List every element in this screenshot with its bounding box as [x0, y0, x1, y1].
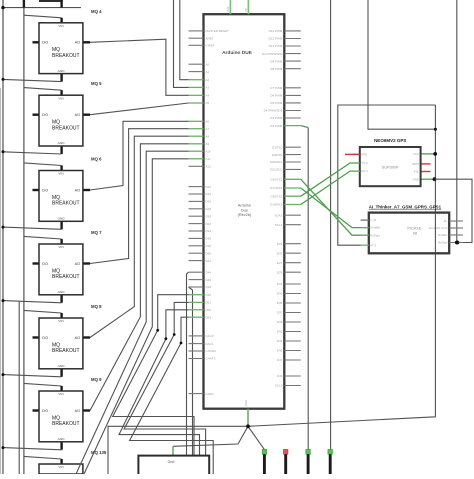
svg-text:D35: D35	[277, 301, 283, 305]
svg-text:BREAKOUT: BREAKOUT	[52, 421, 80, 427]
svg-text:BREAKOUT: BREAKOUT	[52, 125, 80, 131]
svg-text:D51: D51	[206, 301, 212, 305]
svg-text:A8: A8	[206, 134, 210, 138]
svg-text:D10 PWM/SD0: D10 PWM/SD0	[262, 52, 283, 56]
svg-text:D1/TX0: D1/TX0	[272, 145, 283, 149]
svg-text:A11: A11	[206, 157, 211, 161]
svg-text:D33: D33	[277, 292, 283, 296]
svg-text:RxDat2: RxDat2	[438, 241, 448, 245]
svg-text:SDA1: SDA1	[274, 213, 282, 217]
svg-text:Sens 0/2 (TxrI): Sens 0/2 (TxrI)	[429, 226, 448, 230]
svg-text:BREAKOUT: BREAKOUT	[52, 274, 80, 280]
svg-text:AI_Thinker_A7_GSM_GPRS_GPS1: AI_Thinker_A7_GSM_GPRS_GPS1	[369, 204, 442, 209]
svg-text:DO: DO	[42, 112, 48, 117]
svg-text:DO: DO	[42, 40, 48, 45]
svg-text:Serial0r: Serial0r	[370, 226, 380, 230]
svg-text:VIN: VIN	[58, 319, 63, 323]
svg-text:DAC0: DAC0	[206, 334, 214, 338]
svg-text:Arduino: Arduino	[238, 204, 251, 208]
svg-text:GND: GND	[58, 217, 66, 221]
svg-text:D37: D37	[277, 311, 283, 315]
svg-text:AO: AO	[75, 112, 81, 117]
svg-text:5V: 5V	[244, 8, 248, 12]
svg-text:GND1: GND1	[206, 392, 215, 396]
svg-text:RxData: RxData	[370, 233, 380, 237]
svg-text:D25: D25	[277, 251, 283, 255]
svg-text:D53: D53	[206, 315, 212, 319]
svg-text:TX-0: TX-0	[361, 161, 368, 165]
svg-text:D43: D43	[277, 339, 283, 343]
svg-text:FSL: FSL	[414, 170, 420, 174]
svg-text:D36: D36	[206, 237, 212, 241]
svg-text:SUPS00F: SUPS00F	[382, 165, 400, 169]
svg-text:VIN: VIN	[58, 245, 63, 249]
svg-text:VIN: VIN	[58, 392, 63, 396]
svg-text:BREAKOUT: BREAKOUT	[52, 201, 80, 207]
svg-text:D32: D32	[206, 222, 212, 226]
svg-text:A2: A2	[206, 78, 210, 82]
svg-text:Gnd: Gnd	[168, 460, 175, 464]
svg-text:MASTER RESET: MASTER RESET	[206, 29, 230, 33]
svg-text:D3 PWM: D3 PWM	[270, 116, 283, 120]
svg-text:Arduino DUE: Arduino DUE	[222, 50, 253, 56]
svg-text:CANRX: CANRX	[206, 349, 217, 353]
svg-text:U_R: U_R	[370, 218, 376, 222]
svg-text:A0: A0	[206, 62, 210, 66]
svg-text:(Rev2b): (Rev2b)	[238, 213, 252, 217]
svg-text:DO: DO	[42, 187, 48, 192]
svg-text:PPS: PPS	[361, 153, 367, 157]
svg-text:D17/RX2: D17/RX2	[270, 186, 283, 190]
svg-text:CANTX: CANTX	[206, 357, 216, 361]
svg-text:3V3: 3V3	[226, 6, 230, 11]
svg-text:D13 PWM: D13 PWM	[269, 29, 283, 33]
svg-text:DAC1: DAC1	[206, 342, 214, 346]
svg-text:D41: D41	[277, 330, 283, 334]
svg-text:A9: A9	[206, 142, 210, 146]
svg-text:D16/TX2: D16/TX2	[270, 178, 282, 182]
svg-text:D5 PWM: D5 PWM	[270, 101, 283, 105]
svg-text:GND: GND	[58, 290, 66, 294]
svg-text:MQ 6: MQ 6	[91, 157, 102, 162]
svg-text:D40: D40	[206, 251, 212, 255]
svg-text:MQ 4: MQ 4	[91, 9, 102, 14]
svg-text:D34: D34	[206, 229, 212, 233]
svg-text:D11 PWM: D11 PWM	[269, 44, 283, 48]
svg-text:A10: A10	[206, 149, 212, 153]
svg-text:D22: D22	[206, 185, 212, 189]
svg-text:D48: D48	[206, 285, 212, 289]
svg-text:D0/RX0: D0/RX0	[272, 153, 283, 157]
svg-text:D46: D46	[206, 278, 212, 282]
svg-text:AO: AO	[75, 40, 81, 45]
svg-text:AO: AO	[75, 187, 81, 192]
svg-text:D45: D45	[277, 349, 283, 353]
svg-text:AT-3: AT-3	[370, 243, 376, 247]
svg-text:08: 08	[413, 232, 417, 236]
svg-text:D28: D28	[206, 207, 212, 211]
svg-text:D20/SDA: D20/SDA	[270, 160, 283, 164]
svg-text:D31: D31	[277, 282, 283, 286]
svg-text:RxDat1: RxDat1	[438, 233, 448, 237]
svg-text:D9 PWM: D9 PWM	[270, 59, 283, 63]
svg-text:D42: D42	[206, 259, 212, 263]
svg-text:VIN: VIN	[58, 172, 63, 176]
svg-text:D4 PWM/SD3: D4 PWM/SD3	[264, 109, 283, 113]
svg-text:D23: D23	[277, 242, 283, 246]
svg-text:D30: D30	[206, 214, 212, 218]
svg-text:BREAKOUT: BREAKOUT	[52, 53, 80, 59]
svg-text:MQ 8: MQ 8	[91, 304, 102, 309]
svg-text:D50: D50	[206, 293, 212, 297]
svg-text:D52: D52	[206, 308, 212, 312]
svg-text:DO: DO	[42, 261, 48, 266]
svg-text:A4: A4	[206, 94, 210, 98]
svg-text:SCL2: SCL2	[275, 384, 283, 388]
svg-text:D8 PWM: D8 PWM	[270, 67, 283, 71]
svg-text:D38: D38	[206, 244, 212, 248]
svg-text:Due: Due	[241, 208, 248, 212]
svg-text:DO: DO	[42, 408, 48, 413]
svg-text:D44: D44	[206, 270, 212, 274]
svg-text:D27: D27	[277, 261, 283, 265]
svg-text:VBAT: VBAT	[412, 162, 420, 166]
svg-text:D2 PWM: D2 PWM	[270, 124, 283, 128]
svg-text:VIN: VIN	[58, 96, 63, 100]
svg-text:D26: D26	[206, 200, 212, 204]
svg-text:A3: A3	[206, 86, 210, 90]
svg-text:VIN: VIN	[58, 24, 63, 28]
svg-text:A5: A5	[206, 101, 210, 105]
svg-text:VCC: VCC	[413, 152, 419, 156]
svg-text:D12 PWM: D12 PWM	[269, 37, 283, 41]
svg-text:D47: D47	[277, 358, 283, 362]
svg-text:D7 PWM: D7 PWM	[270, 86, 283, 90]
svg-text:IOREF: IOREF	[206, 44, 215, 48]
svg-text:GND: GND	[413, 177, 419, 181]
svg-text:BREAKOUT: BREAKOUT	[52, 348, 80, 354]
svg-text:NEO6MV2 GPS: NEO6MV2 GPS	[374, 138, 406, 143]
svg-text:D6 PWM: D6 PWM	[270, 94, 283, 98]
svg-text:SCL1: SCL1	[275, 223, 283, 227]
svg-text:AREF: AREF	[206, 36, 214, 40]
svg-text:A1: A1	[206, 70, 210, 74]
svg-text:A6: A6	[206, 120, 210, 124]
svg-text:GND: GND	[58, 69, 66, 73]
svg-text:A12: A12	[206, 165, 212, 169]
svg-text:DO: DO	[42, 335, 48, 340]
svg-text:RX-1: RX-1	[361, 169, 368, 173]
svg-text:D21/SCL: D21/SCL	[270, 168, 283, 172]
svg-text:D+: D+	[444, 219, 448, 223]
svg-text:AO: AO	[75, 261, 81, 266]
svg-text:D19/RX1: D19/RX1	[270, 203, 283, 207]
svg-text:GND: GND	[244, 400, 248, 406]
svg-text:A7: A7	[206, 127, 210, 131]
svg-text:GND: GND	[58, 437, 66, 441]
svg-text:PICAXE-: PICAXE-	[407, 227, 423, 231]
svg-text:MQ 5: MQ 5	[91, 81, 102, 86]
svg-text:VIN: VIN	[58, 465, 63, 469]
svg-text:D49: D49	[277, 374, 283, 378]
svg-text:GND: GND	[58, 141, 66, 145]
svg-text:D18/TX1: D18/TX1	[270, 194, 282, 198]
svg-text:AO: AO	[75, 408, 81, 413]
svg-text:D39: D39	[277, 320, 283, 324]
svg-text:D24: D24	[206, 192, 212, 196]
svg-text:D29: D29	[277, 270, 283, 274]
svg-text:GND: GND	[58, 364, 66, 368]
svg-text:MQ 9: MQ 9	[91, 377, 102, 382]
svg-text:MQ 7: MQ 7	[91, 230, 102, 235]
svg-text:AO: AO	[75, 335, 81, 340]
